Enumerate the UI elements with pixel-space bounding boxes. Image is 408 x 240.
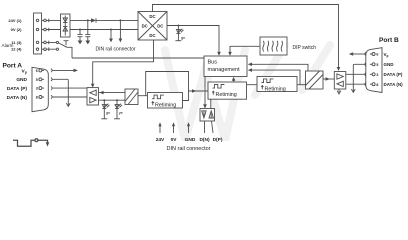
svg-text:6: 6 — [376, 53, 378, 57]
svg-text:D(N): D(N) — [199, 137, 210, 143]
svg-text:3: 3 — [376, 73, 378, 77]
arrow 0V bottom — [172, 122, 175, 133]
Port B connector J2 — [366, 48, 382, 93]
wire transceiver U2 upper to isolator U4 — [99, 92, 126, 94]
pulse waveform icon — [13, 139, 49, 147]
terminal marks port A — [51, 69, 52, 99]
arrow GND bottom — [187, 122, 190, 133]
terminal block X1 — [34, 13, 57, 54]
LED ye port A — [115, 99, 123, 119]
wire retiming B to isolator U5 — [297, 84, 306, 86]
DIP switch S1 — [260, 37, 287, 55]
svg-text:24V: 24V — [156, 137, 165, 143]
wire DATA N A — [53, 96, 88, 98]
wire 0V — [49, 29, 138, 31]
isolator U5 — [306, 71, 324, 89]
wire DATA P B — [346, 73, 365, 75]
svg-text:DC: DC — [157, 23, 163, 28]
Port A connector J1 — [32, 67, 48, 111]
DIN rail arrow 0V — [109, 29, 113, 43]
wire 24V — [49, 19, 138, 21]
svg-text:8: 8 — [36, 96, 38, 100]
wire rail R1 to isolator U5 top — [252, 64, 309, 71]
arrow into transceiver U2 top — [91, 84, 95, 88]
ground arrow GND A — [66, 103, 70, 106]
capacitor C2 — [85, 19, 90, 40]
LED gn power — [176, 25, 185, 41]
wire GND B to ground — [353, 64, 364, 92]
svg-text:DATA (N): DATA (N) — [384, 82, 404, 87]
svg-text:Bus: Bus — [208, 59, 218, 65]
svg-text:DC: DC — [149, 33, 155, 38]
svg-text:GND: GND — [384, 62, 395, 67]
wire isolator U5 to transceiver U3 — [323, 77, 334, 81]
LED gn port A — [102, 99, 110, 119]
ground C1 — [78, 41, 83, 45]
transceiver U3 port B — [334, 72, 346, 90]
svg-text:5: 5 — [376, 63, 378, 67]
wire DC/DC bottom to transceiver U2 top — [93, 40, 154, 84]
arrow into transceiver U2 right — [99, 91, 103, 95]
ground LED gn — [175, 40, 181, 42]
svg-text:Alarm: Alarm — [2, 43, 14, 48]
wire alarm rail — [72, 57, 204, 59]
ground below transceiver U3 — [337, 89, 341, 94]
transceiver U2 port A — [87, 88, 99, 105]
capacitor C1 — [78, 29, 83, 41]
wire retiming A feed rail — [146, 72, 189, 101]
svg-text:Retiming: Retiming — [155, 102, 176, 108]
svg-text:3: 3 — [36, 87, 38, 91]
arrow into transceiver U3 top — [337, 67, 341, 71]
wire isolator U4 to retiming A — [138, 95, 148, 97]
svg-text:DATA (N): DATA (N) — [7, 95, 28, 101]
ground C2 — [85, 41, 90, 45]
svg-text:8: 8 — [376, 83, 378, 87]
svg-text:5: 5 — [36, 78, 38, 82]
wire Vp B arrow — [349, 52, 365, 56]
wire arrow into center retiming — [189, 89, 209, 93]
svg-text:DATA (P): DATA (P) — [384, 72, 403, 77]
svg-text:gn: gn — [181, 35, 185, 40]
svg-text:DC: DC — [142, 23, 148, 28]
DIN rail arrow 24V — [119, 19, 123, 42]
arrow into bus management top right — [228, 52, 232, 56]
terminal marks port B — [365, 52, 366, 86]
wire DATA N B — [346, 83, 365, 85]
svg-text:DC: DC — [149, 14, 155, 19]
surge protection F1 — [61, 14, 71, 37]
svg-text:Port A: Port A — [3, 62, 23, 69]
arrow 24V bottom — [158, 122, 161, 133]
DC/DC converter U1 — [138, 12, 167, 41]
wire Vp A arrow — [53, 69, 78, 73]
wire center retiming to DIN transceiver — [210, 99, 212, 109]
center retiming — [208, 82, 247, 99]
ground arrow GND B — [351, 89, 355, 92]
arrow into DIN transceiver top — [203, 104, 207, 109]
svg-text:GND: GND — [185, 137, 196, 143]
svg-text:DIN rail connector: DIN rail connector — [166, 146, 210, 152]
wire DC/DC top to Port B supply — [153, 5, 339, 68]
svg-text:GND: GND — [16, 77, 27, 83]
wire transceiver U2 lower to isolator U4 — [99, 99, 126, 101]
svg-text:D(P): D(P) — [213, 137, 223, 143]
wire GND A to ground — [53, 79, 69, 106]
wire DATA P A — [53, 87, 88, 89]
svg-text:0V: 0V — [171, 137, 178, 143]
ground LED gn A — [101, 118, 107, 120]
svg-text:DIN rail connector: DIN rail connector — [96, 47, 136, 53]
isolator U4 — [125, 89, 138, 105]
wire bus management to DIN transceiver — [204, 77, 206, 105]
svg-text:DIP switch: DIP switch — [293, 45, 317, 51]
retiming B — [257, 77, 297, 93]
wire center retiming to retiming B — [247, 84, 258, 86]
wire D(N) down — [204, 121, 206, 133]
svg-text:Retiming: Retiming — [265, 86, 286, 92]
svg-text:DATA (P): DATA (P) — [7, 86, 28, 92]
arrow into bus management right lower — [248, 68, 252, 72]
arrow into bus management top left — [217, 52, 221, 56]
arrow center retiming to bus management bottom — [232, 77, 236, 82]
wire rail R2 to retiming B — [252, 70, 301, 85]
arrow into bus management right upper — [248, 63, 252, 67]
svg-text:gn: gn — [106, 110, 110, 115]
DIN transceiver U7 — [200, 109, 215, 122]
svg-text:Retiming: Retiming — [216, 92, 237, 98]
diode D1 — [91, 18, 96, 22]
svg-text:24V (1): 24V (1) — [8, 18, 22, 23]
alarm contact K1 — [56, 41, 72, 58]
ground LED ye A — [114, 118, 120, 120]
svg-text:0V (2): 0V (2) — [11, 27, 23, 32]
svg-text:ye: ye — [119, 110, 123, 115]
wire DIP switch to bus management — [230, 46, 260, 52]
wire DC/DC output 5V — [167, 26, 219, 53]
retiming A — [148, 93, 183, 109]
svg-text:Port B: Port B — [379, 37, 399, 44]
wire D(P) down — [212, 121, 214, 133]
svg-text:6: 6 — [36, 69, 38, 73]
bus management U6 — [204, 56, 247, 77]
svg-text:management: management — [208, 67, 241, 73]
